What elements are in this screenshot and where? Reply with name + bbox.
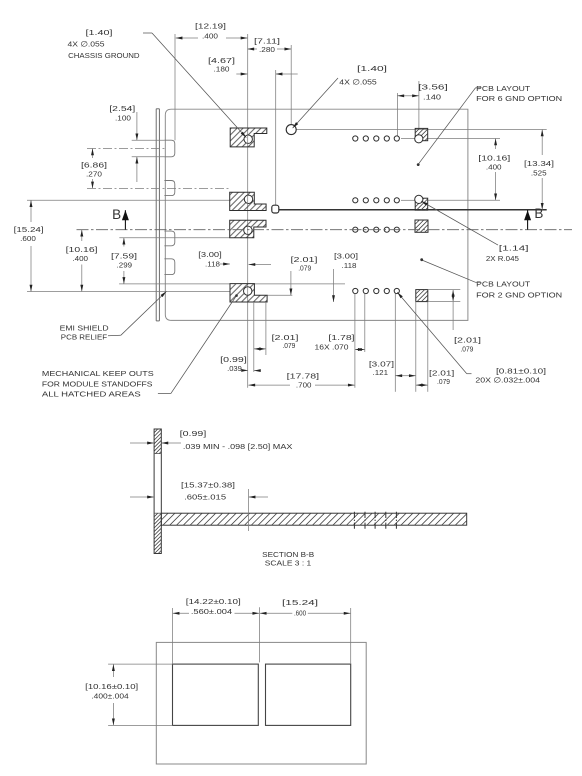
svg-text:[3.00]: [3.00] (198, 250, 222, 259)
gnd pad square row2 (415, 198, 428, 210)
centerline (77, 229, 573, 231)
row4 extension line left (27, 291, 230, 293)
bottom outer rect (156, 642, 366, 764)
svg-text:.700: .700 (296, 381, 312, 390)
keep-out pad 4 (230, 284, 267, 302)
svg-text:FOR 6 GND OPTION: FOR 6 GND OPTION (476, 95, 562, 103)
svg-text:MECHANICAL KEEP OUTS: MECHANICAL KEEP OUTS (42, 370, 154, 378)
svg-text:[10.16±0.10]: [10.16±0.10] (85, 683, 138, 691)
svg-text:[3.00]: [3.00] (334, 252, 358, 261)
svg-text:[12.19]: [12.19] (195, 22, 226, 31)
section hole line (248, 489, 250, 531)
section PCB bar (161, 513, 466, 525)
svg-text:[0.99]: [0.99] (220, 355, 247, 364)
svg-text:.400: .400 (202, 31, 218, 40)
svg-text:4X ∅.055: 4X ∅.055 (339, 78, 377, 87)
gnd pad square row3 (415, 220, 428, 232)
svg-text:4X ∅.055: 4X ∅.055 (68, 40, 105, 49)
svg-text:.079: .079 (282, 341, 295, 350)
svg-text:[1.40]: [1.40] (86, 28, 113, 37)
PCB outline (165, 109, 468, 320)
svg-text:[15.24]: [15.24] (282, 599, 318, 607)
svg-text:.180: .180 (214, 65, 230, 74)
section shield strip (154, 429, 161, 554)
tab1 edge extension lines (132, 139, 165, 141)
svg-text:.299: .299 (117, 261, 133, 270)
row1 line segments (401, 138, 415, 140)
leader chassis ground (143, 32, 152, 34)
svg-text:.400±.004: .400±.004 (91, 693, 128, 701)
leader mechanical (158, 393, 171, 395)
keep-out pad 2 (230, 192, 266, 210)
section pad hole centerline ticks (353, 512, 355, 529)
row3 pad bottom extension (119, 237, 229, 239)
leader 2 gnd (476, 281, 482, 283)
tab2 centerline (87, 187, 230, 189)
chassis ground hole mid (272, 205, 279, 213)
chassis ground hole top (286, 125, 296, 135)
svg-text:[6.86]: [6.86] (81, 161, 107, 170)
gnd pad square row4 (416, 290, 428, 302)
svg-text:[1.40]: [1.40] (357, 64, 387, 73)
svg-text:EMI SHIELD: EMI SHIELD (60, 325, 109, 333)
svg-text:[1.78]: [1.78] (328, 333, 354, 342)
svg-text:.118: .118 (342, 261, 357, 270)
svg-text:.079: .079 (298, 264, 311, 273)
svg-text:.280: .280 (259, 45, 275, 54)
keep-out pad 3 (230, 220, 266, 238)
svg-text:.039: .039 (227, 364, 242, 373)
svg-text:20X ∅.032±.004: 20X ∅.032±.004 (475, 376, 540, 385)
svg-text:PCB RELIEF: PCB RELIEF (61, 334, 108, 342)
leader top right hole (293, 78, 338, 128)
row4 pad top extension (119, 283, 230, 285)
svg-text:[10.16]: [10.16] (66, 245, 98, 254)
svg-text:FOR 2 GND OPTION: FOR 2 GND OPTION (476, 292, 562, 300)
svg-text:.079: .079 (437, 377, 450, 386)
svg-text:.039 MIN - .098 [2.50] MAX: .039 MIN - .098 [2.50] MAX (183, 443, 293, 451)
svg-text:PCB LAYOUT: PCB LAYOUT (476, 281, 531, 289)
svg-text:.079: .079 (460, 345, 473, 354)
svg-text:SCALE 3 : 1: SCALE 3 : 1 (265, 559, 311, 568)
svg-text:B: B (112, 207, 121, 222)
svg-text:B: B (534, 206, 543, 221)
EMI shield strip (155, 109, 157, 321)
svg-text:PCB LAYOUT: PCB LAYOUT (476, 85, 531, 93)
svg-text:[2.54]: [2.54] (109, 104, 135, 113)
svg-text:2X R.045: 2X R.045 (486, 254, 519, 263)
svg-text:.118: .118 (205, 260, 220, 269)
pad hole rows (353, 136, 358, 141)
svg-text:.525: .525 (531, 169, 547, 178)
svg-text:FOR MODULE STANDOFFS: FOR MODULE STANDOFFS (42, 381, 153, 389)
shield relief tabs (164, 140, 174, 157)
leader 6 gnd (476, 87, 482, 89)
svg-text:[17.78]: [17.78] (287, 372, 320, 381)
svg-text:[15.37±0.38]: [15.37±0.38] (181, 481, 235, 490)
svg-text:.605±.015: .605±.015 (184, 493, 226, 502)
bottom inner rect left (173, 664, 259, 725)
row2 line segments right (401, 199, 415, 201)
vertical extension lines top dims (174, 34, 176, 140)
leader 1.14 (421, 201, 498, 245)
svg-text:[0.81±0.10]: [0.81±0.10] (496, 367, 546, 376)
hole centerline over pad circles (247, 135, 249, 143)
svg-text:[14.22±0.10]: [14.22±0.10] (186, 598, 241, 606)
svg-text:.400: .400 (72, 254, 88, 263)
hole center line row1 extension right (296, 129, 547, 131)
svg-text:.100: .100 (115, 114, 131, 123)
tab1 centerline (87, 148, 164, 150)
bottom inner rect right (266, 664, 351, 725)
svg-text:16X .070: 16X .070 (315, 343, 349, 352)
svg-text:.400: .400 (486, 163, 502, 172)
svg-text:.600: .600 (20, 234, 36, 243)
leader 20X (467, 373, 472, 375)
keep-out pad 1 (230, 128, 267, 147)
svg-text:[13.34]: [13.34] (524, 159, 554, 168)
svg-text:.121: .121 (373, 368, 389, 377)
svg-text:ALL HATCHED AREAS: ALL HATCHED AREAS (42, 391, 141, 399)
svg-text:[1.14]: [1.14] (499, 244, 529, 253)
svg-text:.600: .600 (294, 610, 306, 618)
gnd pad square row1 (415, 128, 428, 140)
svg-text:[0.99]: [0.99] (180, 429, 207, 438)
svg-text:CHASSIS GROUND: CHASSIS GROUND (68, 51, 140, 60)
section cut line B-B (279, 209, 547, 211)
leader EMI shield (108, 334, 121, 337)
svg-text:.140: .140 (423, 93, 441, 102)
svg-text:[7.59]: [7.59] (111, 252, 137, 261)
svg-text:[15.24]: [15.24] (14, 225, 44, 234)
row2 extension line left (27, 199, 230, 201)
row4 bar top extension (267, 294, 292, 296)
svg-text:[10.16]: [10.16] (478, 154, 510, 163)
svg-text:[2.01]: [2.01] (454, 336, 481, 345)
svg-text:.270: .270 (86, 170, 102, 179)
svg-text:.560±.004: .560±.004 (191, 608, 232, 616)
svg-text:[3.56]: [3.56] (418, 83, 448, 92)
